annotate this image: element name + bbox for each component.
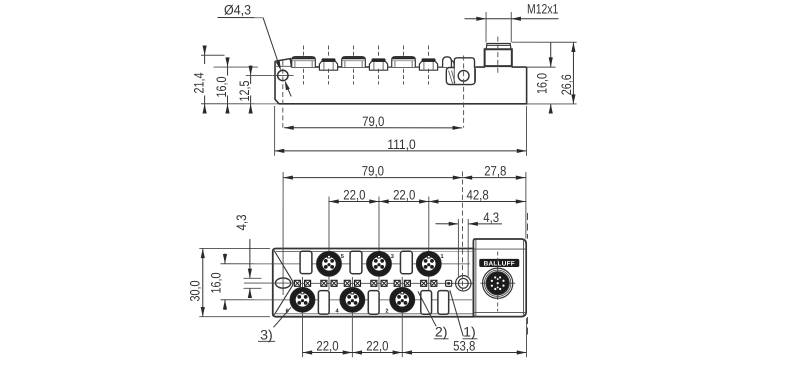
svg-text:1): 1)	[463, 325, 476, 340]
svg-text:5: 5	[341, 254, 344, 260]
svg-text:53,8: 53,8	[453, 338, 476, 353]
svg-text:22,0: 22,0	[393, 187, 416, 202]
svg-text:16,0: 16,0	[208, 272, 223, 293]
svg-text:12,5: 12,5	[237, 80, 252, 101]
svg-text:79,0: 79,0	[362, 114, 385, 129]
svg-text:1: 1	[441, 254, 444, 260]
svg-text:22,0: 22,0	[343, 187, 366, 202]
svg-text:2): 2)	[435, 325, 448, 340]
svg-text:BALLUFF: BALLUFF	[484, 260, 515, 267]
svg-text:27,8: 27,8	[484, 164, 507, 179]
svg-text:30,0: 30,0	[188, 280, 203, 301]
svg-text:111,0: 111,0	[387, 137, 416, 152]
svg-text:Ø4,3: Ø4,3	[224, 2, 251, 17]
svg-text:2: 2	[385, 308, 388, 314]
svg-text:3: 3	[391, 254, 394, 260]
svg-text:26,6: 26,6	[559, 74, 574, 95]
svg-text:4,3: 4,3	[483, 210, 499, 225]
svg-text:79,0: 79,0	[362, 164, 385, 179]
svg-text:22,0: 22,0	[366, 338, 389, 353]
svg-text:21,4: 21,4	[191, 72, 206, 93]
svg-text:3): 3)	[260, 327, 273, 342]
svg-text:16,0: 16,0	[534, 73, 549, 94]
svg-text:22,0: 22,0	[316, 338, 339, 353]
svg-text:M12x1: M12x1	[527, 2, 558, 17]
svg-text:42,8: 42,8	[466, 187, 489, 202]
svg-text:4,3: 4,3	[234, 214, 249, 230]
svg-text:16,0: 16,0	[214, 76, 229, 97]
